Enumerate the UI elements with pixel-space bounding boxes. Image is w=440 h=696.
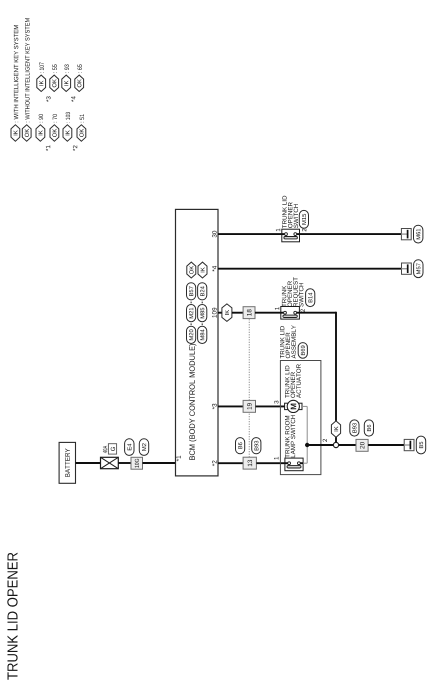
note *1 OK hexagon	[50, 125, 59, 141]
connector M15	[299, 210, 308, 228]
BCM connector M21	[187, 305, 196, 322]
wire fusible link to 10G	[118, 462, 131, 464]
junction 18	[243, 307, 255, 319]
wire 10G to BCM pin *1	[143, 462, 176, 464]
BCM hexagon IK	[198, 262, 207, 278]
pin 2 of M15	[302, 229, 306, 232]
trunk opener request switch S2	[281, 307, 300, 320]
pin 1 of assembly	[274, 457, 278, 460]
note *3 label	[46, 96, 50, 102]
BCM connector M85	[198, 305, 207, 322]
note *3 IK hexagon	[37, 75, 46, 91]
fusible link rating 40A	[103, 446, 107, 453]
connector B93 at 20	[350, 420, 359, 436]
wire dot to terminal 2 circle	[307, 444, 333, 446]
fusible link 40A	[101, 457, 119, 468]
junction 13	[243, 457, 256, 469]
ground connector label M57	[414, 260, 423, 278]
wire M15 to ground M61	[300, 233, 402, 235]
assembly label	[280, 326, 284, 358]
note *2 IK value	[66, 112, 70, 122]
BCM pin 109	[212, 308, 217, 318]
connector B6 at 20	[364, 420, 373, 436]
note *4 IK value	[65, 64, 69, 72]
hexagon IK on branch wire	[331, 421, 340, 437]
trunk lid opener switch S1	[282, 229, 300, 242]
BCM hexagon OK	[187, 262, 196, 278]
ground M57	[402, 263, 412, 274]
pin 3 of assembly	[274, 401, 278, 404]
fusible link location G	[108, 444, 116, 454]
note *1 IK value	[39, 114, 43, 122]
separator	[190, 302, 192, 304]
BCM connector B57	[187, 283, 196, 300]
wire hexagon to junction circle	[335, 437, 337, 442]
ground connector label M61	[414, 225, 423, 243]
legend IK hexagon	[11, 125, 20, 141]
connector M2	[139, 439, 148, 456]
note *2 label	[73, 146, 77, 151]
BCM pin *4	[212, 266, 216, 272]
note *1 label	[46, 145, 50, 151]
pin 1 of M15	[276, 229, 280, 232]
legend OK text	[25, 18, 29, 122]
ground M61	[401, 229, 411, 240]
wire hexagon to junction 18	[232, 312, 243, 314]
wire BCM *4 to ground M57	[218, 268, 402, 270]
wire BCM 109 to hexagon	[218, 312, 223, 314]
legend OK hexagon	[22, 125, 31, 141]
connector B69	[298, 343, 307, 359]
note *4 IK hexagon	[62, 75, 71, 91]
trunk room lamp switch S3	[285, 458, 303, 471]
hexagon IK on wire 109	[222, 304, 232, 322]
BCM pin *2	[212, 461, 217, 467]
pin 2 of B14	[301, 309, 305, 312]
internal wire lamp switch to junction dot	[303, 462, 307, 464]
battery B+	[59, 442, 75, 483]
note *4 OK hexagon	[75, 75, 84, 91]
junction 20	[356, 439, 368, 451]
wire battery to fusible link	[76, 462, 101, 464]
BCM pin *3	[212, 404, 217, 410]
note *1 OK value	[53, 114, 57, 122]
trunk lid opener switch label	[282, 196, 286, 228]
connector B14	[306, 289, 315, 307]
wire circle to junction 20	[339, 444, 356, 446]
note *2 OK hexagon	[77, 125, 86, 141]
BCM connector M84	[198, 326, 207, 343]
note *2 IK hexagon	[63, 125, 72, 141]
connector B93 at 13	[252, 438, 261, 454]
wire B14 pin2 down	[299, 312, 336, 314]
pin 1 of B14	[275, 307, 279, 310]
BCM name text	[189, 344, 196, 460]
trunk lid opener assembly box B69	[280, 361, 321, 475]
BCM pin 30	[212, 231, 217, 238]
internal wire motor return	[302, 405, 307, 407]
note *1 IK hexagon	[36, 125, 45, 141]
connector E4	[125, 439, 134, 456]
ground B5	[404, 439, 414, 450]
wire B14 pin2 horizontal to hexagon	[335, 312, 337, 421]
BCM pin *1	[176, 456, 180, 462]
terminal 2 junction circle	[333, 442, 338, 447]
legend IK text	[14, 25, 18, 122]
junction 19	[243, 400, 255, 412]
note *3 IK value	[40, 62, 44, 72]
separator	[201, 302, 203, 304]
BCM (BODY CONTROL MODULE) U1	[176, 209, 219, 476]
junction 10G	[131, 457, 143, 469]
wire BCM *3 to junction 19	[218, 405, 243, 407]
trunk lid opener actuator label	[285, 366, 289, 398]
pin 2 of assembly	[323, 439, 327, 442]
separator	[201, 323, 203, 325]
note *4 OK value	[78, 64, 82, 72]
wire BCM 30 to trunk lid opener switch	[218, 233, 282, 235]
note *3 OK hexagon	[50, 75, 59, 91]
wire 19 to actuator	[256, 405, 285, 407]
note *2 OK value	[80, 114, 84, 122]
wire 18 to trunk opener request switch	[255, 312, 281, 314]
wire 13 to lamp switch	[256, 462, 285, 464]
trunk room lamp switch label	[285, 416, 289, 458]
BCM connector B24	[198, 283, 207, 300]
ground connector label B5	[416, 436, 425, 454]
title TRUNK LID OPENER	[7, 553, 17, 680]
trunk opener request switch label	[282, 286, 286, 307]
BCM connector M20	[187, 326, 196, 343]
connector B6 at 13	[236, 438, 245, 454]
note *4 label	[71, 96, 75, 102]
junction dot	[305, 443, 309, 447]
note *3 OK value	[53, 64, 57, 72]
wire BCM *2 to junction 13	[218, 462, 243, 464]
dashed connector line	[248, 319, 250, 458]
motor M trunk lid opener actuator	[285, 400, 302, 412]
separator	[190, 323, 192, 325]
wire 20 to ground B5	[368, 444, 404, 446]
